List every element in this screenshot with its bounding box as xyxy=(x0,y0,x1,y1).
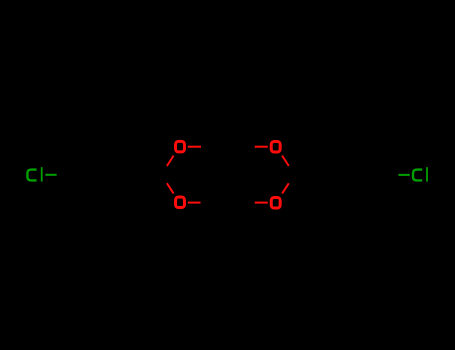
bond O-CH2 top-left, red half xyxy=(188,146,201,148)
bonds CH2-spiro left (black) xyxy=(214,147,228,203)
bond O-CH2 bottom-right, red half xyxy=(255,202,268,204)
left benzene ring (carbon bonds, black on black) xyxy=(62,148,124,202)
label Cl left: C glyph xyxy=(27,170,36,181)
bond O-CH2 bottom-left, carbon half xyxy=(201,202,215,204)
label Cl right: l glyph xyxy=(426,167,428,181)
wire: bond ring to acetal CH left xyxy=(125,173,164,175)
bond O-CH bottom-right, carbon half xyxy=(289,174,292,183)
bond Cl-ring left, green half xyxy=(45,174,56,176)
label O bottom-right xyxy=(271,198,280,209)
bond CH-O bottom-left, red half xyxy=(167,183,174,193)
bond O-CH bottom-right, red half xyxy=(282,183,289,193)
bond O-CH top-right, carbon half xyxy=(289,166,292,174)
bond ring-Cl right, green half xyxy=(399,174,410,176)
bond Cl-ring left, carbon half xyxy=(57,173,63,175)
bond CH-O bottom-left, carbon half xyxy=(164,174,167,183)
right benzene ring (carbon bonds, black on black) xyxy=(331,148,393,202)
bonds CH2-spiro right (black) xyxy=(228,147,242,203)
bond O-CH2 bottom-left, red half xyxy=(188,202,201,204)
wire: bond acetal CH right to ring xyxy=(292,173,331,175)
bond CH-O top-left, carbon half xyxy=(164,166,167,174)
label O top-right xyxy=(271,141,280,152)
bond O-CH2 top-right, carbon half xyxy=(242,146,255,148)
label O bottom-left xyxy=(176,197,185,208)
bond O-CH2 top-right, red half xyxy=(255,146,268,148)
label Cl right: C glyph xyxy=(413,170,422,181)
bond O-CH top-right, red half xyxy=(282,156,289,166)
label O top-left xyxy=(176,141,185,152)
bond O-CH2 bottom-right, carbon half xyxy=(242,202,255,204)
bond CH-O top-left, red half xyxy=(167,156,174,166)
bond O-CH2 top-left, carbon half xyxy=(201,146,214,148)
label Cl left: l glyph xyxy=(41,167,43,181)
bond ring-Cl right, carbon half xyxy=(393,173,398,176)
